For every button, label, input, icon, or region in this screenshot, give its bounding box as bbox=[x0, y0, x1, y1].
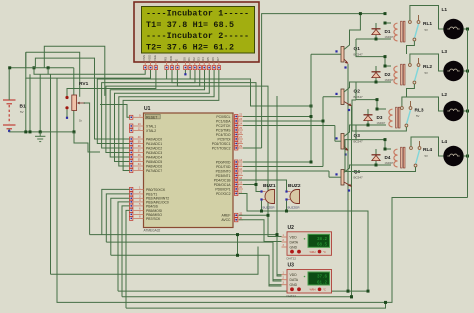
svg-text:PD0/RXD: PD0/RXD bbox=[216, 160, 231, 164]
wire bus y296 bbox=[122, 296, 352, 298]
U1 pin XTAL2 (12) bbox=[134, 130, 144, 132]
U2 pin GND bbox=[282, 246, 288, 248]
svg-text:PB4/SS: PB4/SS bbox=[146, 204, 159, 208]
svg-text:ATMEGA32: ATMEGA32 bbox=[144, 229, 161, 233]
svg-text:PC0/SCL: PC0/SCL bbox=[216, 115, 230, 119]
U2 display bbox=[308, 234, 330, 247]
LCD pin stub VDD bbox=[150, 62, 152, 65]
wire vertical x277 bbox=[276, 96, 278, 235]
svg-text:PB1/T1: PB1/T1 bbox=[146, 192, 157, 196]
junction ground rail x74 bbox=[73, 130, 76, 133]
U1 right terminal PC4/TDO bbox=[235, 133, 238, 137]
wire coil top link bbox=[385, 22, 391, 24]
junction VSS at rail bbox=[33, 66, 36, 69]
LCD pin terminal D4 bbox=[203, 66, 206, 70]
U1 left terminal PA0/ADC0 bbox=[130, 137, 133, 141]
wire RL4 NO contact bbox=[345, 140, 416, 172]
wire bus y234 bbox=[90, 235, 282, 276]
svg-text:L1: L1 bbox=[442, 7, 448, 13]
wire lamp L2 right bbox=[463, 110, 467, 112]
wire Q1 base bbox=[311, 53, 341, 55]
LCD pin stub D3 bbox=[199, 62, 201, 65]
U1 pin PD3/INT1 (17) bbox=[233, 175, 243, 177]
wire PB to bus y308 bbox=[126, 210, 130, 308]
svg-text:PB7/SCK: PB7/SCK bbox=[146, 217, 161, 221]
wire RL2 NO contact bbox=[407, 84, 415, 97]
svg-text:%RH: %RH bbox=[310, 250, 316, 254]
svg-text:BUZ1: BUZ1 bbox=[263, 183, 276, 189]
wire lamp L4 right bbox=[463, 155, 467, 157]
wire PC7 to feed bbox=[243, 147, 262, 149]
LCD pin terminal VEE bbox=[154, 66, 157, 70]
wire through RV1 bbox=[73, 68, 75, 132]
svg-text:RV1: RV1 bbox=[79, 81, 89, 87]
transistor Q1 BC547 bbox=[341, 47, 344, 63]
U1 pin PB3/AIN1/OC0 (4) bbox=[134, 201, 144, 203]
junction D2 bottom bbox=[375, 81, 378, 84]
U1 pin PB6/MISO (7) bbox=[134, 213, 144, 215]
U1 pin PD1/TXD (15) bbox=[233, 166, 243, 168]
relay RL2 throw stub bbox=[418, 58, 420, 63]
wire C3 to PA0 bbox=[35, 58, 129, 139]
U3 pin VDD bbox=[282, 274, 288, 276]
U1 pin PB0/T0/XCK (1) bbox=[134, 188, 144, 190]
svg-text:U2: U2 bbox=[288, 225, 295, 231]
transistor Q2 BC547 bbox=[341, 89, 344, 105]
wire LCD D3 to PA3 bbox=[106, 70, 200, 153]
U1 right terminal PC2/TCK bbox=[235, 124, 238, 128]
svg-text:%RH: %RH bbox=[310, 288, 316, 292]
svg-text:5V: 5V bbox=[425, 71, 429, 75]
junction Q1 emitter to bus bbox=[347, 290, 350, 293]
svg-text:VEE: VEE bbox=[153, 55, 157, 61]
lamp L2 bbox=[443, 101, 463, 121]
emitter arrow Q2 bbox=[344, 102, 352, 107]
LCD pin terminal D0 bbox=[184, 66, 187, 70]
wire battery bottom bbox=[8, 129, 10, 132]
svg-text:D5: D5 bbox=[206, 57, 210, 61]
junction PD5 riser bbox=[255, 183, 258, 186]
wire D3 bottom bbox=[367, 121, 369, 125]
battery B1 bbox=[3, 100, 16, 129]
svg-text:PC4/TDO: PC4/TDO bbox=[216, 133, 231, 137]
LCD pin terminal D7 bbox=[217, 66, 220, 70]
U1 right terminal PD0/RXD bbox=[235, 160, 238, 164]
U1 left terminal PA6/ADC6 bbox=[130, 164, 133, 168]
LCD pin stub VSS bbox=[144, 62, 146, 65]
svg-text:PD5/OC1A: PD5/OC1A bbox=[214, 183, 232, 187]
diode D4 1N4007 bbox=[372, 155, 381, 161]
pin end Q3 base bbox=[335, 137, 337, 139]
relay RL1 coil bbox=[394, 23, 398, 41]
junction AREF riser bbox=[267, 214, 270, 217]
wire Q4 emitter down bbox=[351, 187, 353, 297]
U1 left terminal PA4/ADC4 bbox=[130, 155, 133, 159]
svg-text:RL3: RL3 bbox=[415, 108, 424, 114]
svg-text:----Incubator 1-----: ----Incubator 1----- bbox=[146, 8, 249, 18]
relay RL4 coil bbox=[394, 149, 398, 167]
wire PD2 riser to Q4 base bbox=[243, 170, 329, 172]
U1 left terminal PB4/SS bbox=[130, 204, 133, 208]
LCD pin stub RW bbox=[171, 62, 173, 65]
wire bridge x237 bbox=[237, 235, 239, 256]
svg-text:PD4/OC1B: PD4/OC1B bbox=[214, 178, 232, 182]
U1 right terminal PD1/TXD bbox=[235, 165, 238, 169]
svg-text:L2: L2 bbox=[442, 92, 448, 98]
wire LCD D5 to PA5 bbox=[115, 70, 210, 162]
wire bus y291 bbox=[118, 290, 368, 292]
wire U3 GND bbox=[269, 284, 282, 286]
junction x277 bus bbox=[276, 233, 279, 236]
relay RL1 contacts bbox=[409, 21, 412, 24]
wire Q1 emitter down bbox=[347, 64, 349, 291]
U2 buttons bbox=[290, 250, 294, 254]
wire x40 drop bbox=[39, 74, 41, 132]
transistor Q4 BC547 bbox=[341, 170, 344, 186]
svg-text:PC5/TDI: PC5/TDI bbox=[218, 137, 231, 141]
junction feed row2 bbox=[384, 55, 387, 58]
wire LCD D4 to PA4 bbox=[110, 70, 204, 157]
svg-text:PA0/ADC0: PA0/ADC0 bbox=[146, 137, 162, 141]
U3 pin DATA bbox=[282, 279, 288, 281]
U1 right terminal PD4/OC1B bbox=[235, 178, 238, 182]
junction Q4 emitter to bus bbox=[350, 295, 353, 298]
U1 right terminal PD6/ICP1 bbox=[235, 187, 238, 191]
svg-text:BC547: BC547 bbox=[354, 53, 364, 57]
svg-text:PD2/INT0: PD2/INT0 bbox=[216, 169, 231, 173]
potentiometer RV1 bbox=[72, 95, 77, 111]
svg-text:68.5: 68.5 bbox=[317, 244, 328, 248]
wire bus y274 bbox=[51, 247, 259, 275]
U1 pin PA6/ADC6 (34) bbox=[134, 165, 144, 167]
svg-text:Q2: Q2 bbox=[354, 89, 361, 95]
U1 left terminal PB6/MISO bbox=[130, 212, 133, 216]
U1 left terminal PB3/AIN1/OC0 bbox=[130, 200, 133, 204]
junction ground rail x25 bbox=[24, 130, 27, 133]
LCD pin terminal VDD bbox=[149, 66, 152, 70]
U1 pin XTAL1 (13) bbox=[134, 125, 144, 127]
U1 pin PB4/SS (5) bbox=[134, 205, 144, 207]
LCD screen bbox=[142, 7, 255, 54]
svg-text:BUZZER: BUZZER bbox=[263, 206, 276, 210]
wire D1 top bbox=[375, 23, 377, 29]
U1 pin PA2/ADC2 (38) bbox=[134, 147, 144, 149]
svg-text:37.6: 37.6 bbox=[317, 276, 328, 280]
svg-text:PA6/ADC6: PA6/ADC6 bbox=[146, 164, 162, 168]
U1 left terminal PB1/T1 bbox=[130, 192, 133, 196]
microcontroller U1 body bbox=[144, 113, 234, 228]
BUZ1 pin- bbox=[260, 198, 262, 200]
wire D2 top bbox=[375, 66, 377, 72]
U1 pin PC5/TDI (27) bbox=[233, 138, 243, 140]
svg-text:T2= 37.6 H2= 61.2: T2= 37.6 H2= 61.2 bbox=[146, 43, 234, 53]
wire U2 GND down bbox=[257, 247, 259, 256]
U1 right terminal PD2/INT0 bbox=[235, 169, 238, 173]
wire LCD D6 to PA6 bbox=[119, 70, 214, 166]
wire bus y302 bbox=[57, 78, 468, 302]
junction bus meet bbox=[384, 301, 387, 304]
relay RL1 core bbox=[401, 21, 403, 42]
junction coil top row3 bbox=[376, 108, 379, 111]
U1 right terminal AREF bbox=[235, 213, 238, 217]
wire +V feed row3 bbox=[356, 82, 377, 109]
svg-text:RESET: RESET bbox=[146, 116, 157, 120]
BUZ2 pin- bbox=[285, 198, 287, 200]
wire C1 top-left bbox=[44, 46, 105, 96]
RESET pin highlight bbox=[145, 114, 160, 119]
LCD pin terminal VSS bbox=[144, 66, 147, 70]
LCD pin terminal RW bbox=[170, 66, 173, 70]
emitter arrow Q4 bbox=[344, 182, 352, 187]
svg-text:B1: B1 bbox=[20, 104, 26, 110]
U1 pin PA3/ADC3 (37) bbox=[134, 152, 144, 154]
svg-text:PA7/ADC7: PA7/ADC7 bbox=[146, 169, 162, 173]
junction RS riser bbox=[310, 105, 313, 108]
svg-text:Q3: Q3 bbox=[354, 133, 361, 139]
wire Q3 base bbox=[335, 140, 341, 142]
junction coil top row1 bbox=[384, 22, 387, 25]
BUZ1 pin+ bbox=[260, 190, 262, 192]
wire C2 left bbox=[25, 52, 27, 68]
U1 pin AREF (32) bbox=[233, 214, 243, 216]
U1 pin PA4/ADC4 (36) bbox=[134, 156, 144, 158]
wire coil top link bbox=[385, 65, 391, 67]
wire PC1/PD1 riser to Q2 base bbox=[243, 120, 323, 122]
svg-text:XTAL2: XTAL2 bbox=[146, 129, 156, 133]
wire lamp rail bbox=[467, 29, 469, 198]
wire +V feed row2 bbox=[356, 39, 385, 66]
junction lamp L4 rail bbox=[466, 155, 469, 158]
U1 left terminal PA1/ADC1 bbox=[130, 142, 133, 146]
U1 pin PC4/TDO (26) bbox=[233, 134, 243, 136]
svg-text:RW: RW bbox=[169, 56, 173, 61]
svg-text:1N4007: 1N4007 bbox=[385, 162, 394, 165]
svg-text:DHT22: DHT22 bbox=[287, 294, 297, 298]
svg-text:D7: D7 bbox=[216, 57, 220, 61]
U1 pin PB5/MOSI (6) bbox=[134, 209, 144, 211]
svg-text:Q1: Q1 bbox=[354, 46, 361, 52]
U1 pin PD5/OC1A (19) bbox=[233, 184, 243, 186]
LCD pin stub VEE bbox=[155, 62, 157, 65]
wire LCD VSS down bbox=[34, 68, 145, 75]
wire U3 DATA bbox=[273, 279, 282, 281]
svg-text:BC547: BC547 bbox=[354, 176, 364, 180]
RV1 wiper bbox=[79, 102, 85, 104]
U1 pin PD4/OC1B (18) bbox=[233, 179, 243, 181]
wire C2 top-left bbox=[26, 52, 80, 97]
U1 left terminal XTAL2 bbox=[130, 129, 133, 133]
junction Q2 emitter to bus bbox=[350, 295, 353, 298]
relay RL4 contacts bbox=[410, 147, 413, 150]
wire LCD VEE to RV1 bbox=[67, 70, 156, 96]
wire buzzer common bbox=[239, 194, 368, 292]
junction D1 bottom bbox=[375, 38, 378, 41]
svg-text:GND: GND bbox=[290, 283, 298, 287]
wire lamp L3 right bbox=[463, 70, 467, 72]
relay RL3 blade bbox=[406, 110, 410, 125]
wire BUZ2 minus bbox=[286, 201, 288, 211]
wire PC2 riser to Q3 base bbox=[243, 125, 335, 127]
U1 pin PA5/ADC5 (35) bbox=[134, 161, 144, 163]
junction D3 bottom bbox=[367, 124, 370, 127]
U1 right terminal PC0/SCL bbox=[235, 115, 238, 119]
relay RL2 core bbox=[401, 64, 403, 85]
wire LCD VDD down bbox=[26, 52, 151, 78]
svg-text:D1: D1 bbox=[385, 29, 391, 34]
wire lamp L1 right bbox=[463, 28, 467, 30]
svg-text:5V: 5V bbox=[416, 114, 420, 118]
U1 pin PC6/TOSC1 (28) bbox=[233, 143, 243, 145]
wire D3 top bbox=[367, 109, 369, 115]
svg-text:PD7/OC2: PD7/OC2 bbox=[216, 192, 231, 196]
wire PB to bus y291 bbox=[118, 202, 130, 291]
svg-text:PC3/TMS: PC3/TMS bbox=[216, 128, 231, 132]
wire rail y67 bbox=[9, 67, 74, 69]
wire RL1 NO contact bbox=[407, 41, 415, 54]
svg-text:RS: RS bbox=[164, 57, 168, 61]
U1 right terminal PD3/INT1 bbox=[235, 174, 238, 178]
pin end near Q4 emitter bbox=[348, 189, 350, 191]
LCD pin terminal E bbox=[176, 66, 179, 70]
svg-text:DHT22: DHT22 bbox=[287, 256, 297, 260]
wire E to U2 VDD bbox=[177, 70, 281, 237]
LCD pin terminal RS bbox=[165, 66, 168, 70]
U1 left terminal PA3/ADC3 bbox=[130, 151, 133, 155]
svg-text:XTAL1: XTAL1 bbox=[146, 124, 156, 128]
emitter arrow Q3 bbox=[344, 146, 348, 151]
pin end Q4 base bbox=[335, 173, 337, 175]
svg-text:1N4007: 1N4007 bbox=[385, 36, 394, 39]
U1 pin PC7/TOSC2 (29) bbox=[233, 147, 243, 149]
wire bus y308 bbox=[126, 302, 386, 308]
diode D2 1N4007 bbox=[372, 72, 381, 78]
wire Q4 base bbox=[329, 176, 341, 178]
LCD pin stub E bbox=[176, 62, 178, 65]
pin end near Q1 emitter bbox=[344, 66, 346, 68]
LCD pin stub D5 bbox=[208, 62, 210, 65]
svg-text:PB0/T0/XCK: PB0/T0/XCK bbox=[146, 188, 166, 192]
svg-text:D6: D6 bbox=[211, 57, 215, 61]
junction rail battery bbox=[8, 66, 11, 69]
wire LCD D2 to PA2 bbox=[102, 70, 195, 148]
wire PB to bus y296 bbox=[122, 206, 130, 297]
svg-text:PC7/TOSC2: PC7/TOSC2 bbox=[212, 146, 231, 150]
svg-text:PC6/TOSC1: PC6/TOSC1 bbox=[212, 142, 231, 146]
svg-text:BUZZER: BUZZER bbox=[288, 206, 301, 210]
U1 pin AVCC (30) bbox=[233, 219, 243, 221]
svg-text:PC1/SDA: PC1/SDA bbox=[216, 119, 231, 123]
junction riser Q1 PD0 bbox=[310, 161, 313, 164]
svg-text:D1: D1 bbox=[187, 57, 191, 61]
relay RL2 contacts bbox=[409, 64, 412, 67]
ground bbox=[35, 132, 45, 142]
wire RV1 wiper down bbox=[84, 103, 89, 235]
wire Q2 emitter down bbox=[351, 107, 353, 297]
svg-text:61.2: 61.2 bbox=[317, 281, 328, 285]
U1 pin PB7/SCK (8) bbox=[134, 217, 144, 219]
U1 pin PC3/TMS (25) bbox=[233, 129, 243, 131]
U1 left terminal RESET bbox=[130, 115, 133, 119]
LCD pin stub RS bbox=[166, 62, 168, 65]
wire RS to riser bbox=[167, 70, 311, 106]
lamp L1 bbox=[443, 19, 463, 39]
LCD pin stub D7 bbox=[218, 62, 220, 65]
wire LCD D1 to PA1 bbox=[97, 70, 190, 144]
LCD pin stub D1 bbox=[189, 62, 191, 65]
svg-text:1N4007: 1N4007 bbox=[377, 122, 386, 125]
LCD pin terminal D5 bbox=[207, 66, 210, 70]
wire LCD D0 stub bbox=[184, 70, 186, 74]
buzzer BUZ2 bbox=[290, 190, 300, 204]
wire ground rail y132 bbox=[9, 131, 74, 133]
U1 pin PB1/T1 (2) bbox=[134, 193, 144, 195]
U2 pin DATA bbox=[282, 241, 288, 243]
LCD pin stub D0 bbox=[184, 62, 186, 65]
svg-text:PD6/ICP1: PD6/ICP1 bbox=[215, 187, 230, 191]
wire AREF bbox=[239, 214, 268, 216]
lamp L4 bbox=[443, 146, 463, 166]
wire coil top link bbox=[385, 148, 391, 150]
U1 pin RESET (9) bbox=[134, 116, 144, 118]
svg-text:D3: D3 bbox=[377, 115, 383, 120]
svg-text:RL4: RL4 bbox=[423, 147, 432, 153]
LCD pin terminal D6 bbox=[212, 66, 215, 70]
relay RL3 contacts bbox=[401, 107, 404, 110]
wire x30 drop bbox=[29, 74, 31, 132]
wire battery top bbox=[8, 68, 10, 100]
wire PD5 bbox=[243, 184, 256, 186]
wire AVCC to U2 DATA bbox=[239, 220, 282, 242]
U1 right terminal AVCC bbox=[235, 218, 238, 222]
svg-text:T1= 37.8 H1= 68.5: T1= 37.8 H1= 68.5 bbox=[146, 20, 234, 30]
svg-text:D2: D2 bbox=[385, 72, 391, 77]
wire LCD D7 to PA7 bbox=[123, 70, 219, 171]
wire Q1 collector bbox=[344, 14, 360, 50]
svg-text:VDD: VDD bbox=[148, 54, 152, 61]
wire PD4 to BUZ2 bbox=[239, 180, 287, 190]
wire PB to bus y234 bbox=[102, 189, 130, 234]
junction ground rail x40 bbox=[39, 130, 42, 133]
svg-text:PD3/INT1: PD3/INT1 bbox=[216, 174, 231, 178]
LCD pin terminal D1 bbox=[188, 66, 191, 70]
LCD module LCD1 bezel bbox=[134, 2, 259, 62]
svg-text:VDD: VDD bbox=[290, 273, 298, 277]
svg-text:DATA: DATA bbox=[290, 278, 299, 282]
junction buzzer common bus bbox=[367, 290, 370, 293]
svg-text:PA1/ADC1: PA1/ADC1 bbox=[146, 142, 162, 146]
svg-text:D3: D3 bbox=[197, 57, 201, 61]
relay RL1 blade bbox=[414, 24, 418, 39]
junction feed row3 bbox=[376, 98, 379, 101]
svg-text:AVCC: AVCC bbox=[221, 218, 231, 222]
svg-text:PA4/ADC4: PA4/ADC4 bbox=[146, 155, 162, 159]
U1 pin PD0/RXD (14) bbox=[233, 161, 243, 163]
svg-text:BC547: BC547 bbox=[354, 95, 364, 99]
svg-text:DATA: DATA bbox=[290, 241, 299, 245]
svg-text:L4: L4 bbox=[442, 139, 448, 145]
svg-text:BUZ2: BUZ2 bbox=[288, 183, 301, 189]
relay RL3 coil bbox=[389, 109, 393, 127]
U1 pin PC2/TCK (24) bbox=[233, 125, 243, 127]
wire RL2 pole to lamp bbox=[410, 54, 444, 71]
junction D4 bottom bbox=[375, 164, 378, 167]
U3 buttons bbox=[290, 287, 294, 291]
wire RV1 bottom bbox=[66, 110, 68, 118]
wire x48 drop bbox=[47, 68, 49, 75]
relay RL4 core bbox=[401, 147, 403, 168]
svg-text:RL2: RL2 bbox=[423, 64, 432, 70]
junction coil top row2 bbox=[384, 65, 387, 68]
